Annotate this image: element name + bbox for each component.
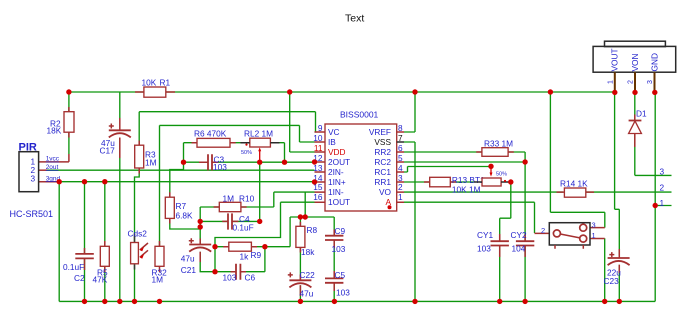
svg-text:47u: 47u xyxy=(181,254,195,264)
capacitor C23 xyxy=(608,257,630,259)
capacitor C22 xyxy=(289,279,311,281)
wire R8 C9 top net xyxy=(290,192,334,235)
svg-text:50%: 50% xyxy=(496,172,507,178)
svg-text:2: 2 xyxy=(398,182,403,192)
svg-text:5: 5 xyxy=(398,153,403,163)
svg-text:4: 4 xyxy=(398,163,403,173)
svg-text:Cds2: Cds2 xyxy=(128,228,148,238)
svg-text:10: 10 xyxy=(313,133,323,143)
junction dots R10 C4 area xyxy=(198,219,203,224)
wire R9 leads xyxy=(215,246,290,248)
svg-text:47K: 47K xyxy=(93,275,108,285)
resistor R5 xyxy=(100,246,109,266)
svg-text:RC2: RC2 xyxy=(374,157,391,167)
svg-text:2out: 2out xyxy=(46,164,59,171)
svg-text:6: 6 xyxy=(398,143,403,153)
svg-text:2: 2 xyxy=(541,226,545,235)
svg-text:CY2: CY2 xyxy=(511,230,528,240)
wire C6 leads xyxy=(215,247,265,272)
svg-text:103: 103 xyxy=(332,244,346,254)
svg-text:50%: 50% xyxy=(241,150,252,156)
svg-text:R8: R8 xyxy=(307,225,318,235)
svg-text:0.1uF: 0.1uF xyxy=(233,222,254,232)
capacitor C3 xyxy=(208,154,212,170)
wire C4 plates leads xyxy=(200,220,260,222)
component red lead segments xyxy=(68,107,70,138)
capacitor C21 xyxy=(189,244,211,246)
resistor R6 xyxy=(197,138,230,147)
svg-text:47u: 47u xyxy=(300,289,314,299)
wire C9 to C5 to rail xyxy=(333,240,335,301)
svg-text:1IN-: 1IN- xyxy=(328,187,344,197)
wire switch pin1 drop xyxy=(604,238,606,301)
svg-text:C2: C2 xyxy=(74,273,85,283)
svg-text:103: 103 xyxy=(477,244,491,254)
wire R10 right to IC pin15 xyxy=(241,192,315,207)
svg-text:2: 2 xyxy=(660,183,665,193)
junction dot net1 xyxy=(653,203,658,208)
svg-text:1k: 1k xyxy=(240,252,250,262)
wire C2 column xyxy=(84,182,86,302)
wire switch pin3 riser xyxy=(604,212,606,227)
wire IC pin6 R33 net xyxy=(404,152,525,162)
wire PIR pin3 bus to IC pin14 xyxy=(39,181,60,183)
IC pin stubs left xyxy=(315,132,326,202)
junction dots bottom rail xyxy=(82,299,87,304)
svg-text:103: 103 xyxy=(223,272,237,282)
wire R7 feed from 2OUT node xyxy=(170,162,184,197)
svg-text:104: 104 xyxy=(512,244,526,254)
resistor R14 xyxy=(564,188,585,197)
svg-text:R33 1M: R33 1M xyxy=(484,139,513,149)
svg-text:RR1: RR1 xyxy=(374,177,391,187)
junction dot pin14 xyxy=(312,179,317,184)
op-amp IC U1 BISS0001 xyxy=(325,124,397,211)
wire R3 net to IC pin9 xyxy=(139,112,315,146)
wire IC pin4 net to BT1 wiper xyxy=(404,167,491,173)
junction dot pin5 CY2 xyxy=(522,159,527,164)
resistor R8 xyxy=(296,226,305,247)
junction dots PIR bus xyxy=(57,179,62,184)
wire IC pin16 net to R9 left xyxy=(215,202,315,247)
svg-text:R14 1K: R14 1K xyxy=(560,178,588,188)
wire R5 column xyxy=(104,182,106,302)
svg-text:VO: VO xyxy=(379,187,392,197)
potentiometer RL2 xyxy=(250,138,271,147)
svg-text:GND: GND xyxy=(650,53,660,71)
wire net2 branch to switch pin3 xyxy=(550,192,604,212)
capacitor C4 xyxy=(228,213,232,229)
junction dot BT1 right xyxy=(508,179,513,184)
wire R3 bottom jog to Qds2 xyxy=(135,168,140,243)
svg-text:C17: C17 xyxy=(100,146,116,156)
svg-text:BISS0001: BISS0001 xyxy=(340,110,379,120)
svg-text:1M: 1M xyxy=(145,158,157,168)
svg-text:103: 103 xyxy=(336,288,350,298)
wire R7 bottom xyxy=(170,218,200,229)
svg-text:VON: VON xyxy=(630,54,640,72)
svg-text:C5: C5 xyxy=(335,270,346,280)
svg-text:11: 11 xyxy=(314,143,323,153)
svg-text:HC-SR501: HC-SR501 xyxy=(10,209,54,219)
svg-text:R10: R10 xyxy=(239,193,255,203)
svg-text:RR2: RR2 xyxy=(374,147,391,157)
wire VCC drop to net2 xyxy=(549,92,551,192)
svg-text:3: 3 xyxy=(31,173,36,183)
wire RL2 right drop xyxy=(280,143,285,163)
svg-text:R1: R1 xyxy=(160,78,171,88)
svg-text:VC: VC xyxy=(328,127,340,137)
svg-text:6.8K: 6.8K xyxy=(176,211,194,221)
svg-text:C22: C22 xyxy=(300,270,316,280)
resistor R3 xyxy=(135,145,144,168)
resistor R33 xyxy=(482,148,508,157)
junction dots top rail xyxy=(66,89,71,94)
capacitor C2 xyxy=(75,254,94,259)
svg-text:0.1uF: 0.1uF xyxy=(63,262,84,272)
svg-text:RL2 1M: RL2 1M xyxy=(244,129,273,139)
svg-text:10K: 10K xyxy=(142,78,157,88)
wire wiper column C4 right xyxy=(259,162,261,221)
svg-text:Text: Text xyxy=(345,12,364,24)
svg-text:103: 103 xyxy=(213,162,227,172)
resistor R7 xyxy=(165,197,174,218)
IC pin1 marker dot xyxy=(388,205,392,209)
wire R2 column to PIR pin1 xyxy=(68,92,70,154)
capacitor CY1 xyxy=(491,241,509,245)
svg-text:2IN-: 2IN- xyxy=(328,167,344,177)
wire net1 stub xyxy=(655,205,671,207)
junction dots R8 node xyxy=(298,214,303,219)
svg-text:1vcc: 1vcc xyxy=(46,156,60,163)
svg-text:1: 1 xyxy=(660,198,665,208)
resistor R9 xyxy=(229,242,252,251)
svg-text:C6: C6 xyxy=(245,272,256,282)
wire R9 left down to C6 xyxy=(214,247,216,272)
junction dots 2OUT row xyxy=(181,160,186,165)
svg-text:1M: 1M xyxy=(152,275,164,285)
svg-text:D1: D1 xyxy=(636,109,647,119)
wire VDD branch to IC pin11 xyxy=(290,92,315,152)
svg-text:VSS: VSS xyxy=(374,137,391,147)
capacitor C17 xyxy=(109,129,131,131)
svg-text:3: 3 xyxy=(647,80,654,84)
capacitor C6 xyxy=(236,264,240,280)
svg-text:R13 BT1: R13 BT1 xyxy=(452,175,485,185)
svg-text:1IN+: 1IN+ xyxy=(328,177,346,187)
wire top VCC rail xyxy=(69,91,615,93)
svg-text:C21: C21 xyxy=(181,265,197,275)
wire net2 VO to R14 to edge xyxy=(404,191,672,193)
svg-text:VDD: VDD xyxy=(328,147,346,157)
capacitor C5 xyxy=(325,278,343,282)
wire VREF VSS column xyxy=(404,92,415,301)
resistor R32 xyxy=(155,246,164,266)
switch SW1 jumper xyxy=(535,228,605,239)
capacitor C9 xyxy=(325,236,343,240)
svg-text:C9: C9 xyxy=(335,226,346,236)
wire PIR pin2 net to IC pin13 xyxy=(39,169,47,171)
wire R10 C4 left column to C21 xyxy=(200,207,219,244)
svg-text:7: 7 xyxy=(398,133,403,143)
junction dot BT1 wiper xyxy=(488,164,493,169)
svg-text:R7: R7 xyxy=(176,201,187,211)
svg-text:16: 16 xyxy=(313,192,323,202)
wire C17 column xyxy=(119,92,121,301)
wire R32 net to IC pin10 xyxy=(160,125,315,246)
svg-text:CY1: CY1 xyxy=(477,230,494,240)
wire 2OUT net with C3 xyxy=(184,161,315,163)
wire R9 right up to R8 node xyxy=(289,217,291,247)
svg-text:2OUT: 2OUT xyxy=(328,157,350,167)
wire GND column right xyxy=(654,92,656,301)
capacitor CY2 xyxy=(516,241,534,245)
wire left edge down xyxy=(58,182,60,302)
svg-text:10K 1M: 10K 1M xyxy=(452,185,481,195)
wire R6 to RL2 xyxy=(230,142,241,144)
svg-text:R9: R9 xyxy=(251,250,262,260)
wire bottom GND rail xyxy=(59,300,655,302)
wire R8 bottom to C22 xyxy=(299,247,301,301)
svg-text:RC1: RC1 xyxy=(374,167,391,177)
wire D1 column net3 xyxy=(635,92,672,175)
wire IC pin5 net to CY2 xyxy=(404,162,525,301)
potentiometer BT1 xyxy=(482,178,501,186)
wire C21 bottom link xyxy=(200,252,215,272)
svg-text:18k: 18k xyxy=(301,247,315,257)
svg-text:1OUT: 1OUT xyxy=(328,197,350,207)
wire R6 left drop xyxy=(184,143,198,163)
svg-text:3: 3 xyxy=(660,167,665,177)
svg-text:1: 1 xyxy=(592,231,596,240)
wire BT1 right to CY1 xyxy=(500,182,511,301)
wire IC pin3 net R13 BT1 xyxy=(404,181,511,183)
svg-text:3: 3 xyxy=(592,220,596,229)
connector J1 VOUT VON GND xyxy=(593,46,676,72)
wire IC pin1 A net to switch pin2 xyxy=(404,202,535,233)
svg-text:2: 2 xyxy=(628,80,635,84)
svg-text:IB: IB xyxy=(328,137,336,147)
svg-text:R6 470K: R6 470K xyxy=(194,129,227,139)
svg-text:8: 8 xyxy=(398,123,403,133)
wire connector pin1 column xyxy=(615,92,620,301)
svg-text:1: 1 xyxy=(398,192,403,202)
svg-text:1: 1 xyxy=(608,80,615,84)
svg-text:C23: C23 xyxy=(604,276,620,286)
svg-text:VOUT: VOUT xyxy=(610,48,620,71)
resistor R13 xyxy=(430,177,451,187)
resistor R1 xyxy=(135,91,175,93)
junction dots R9 C6 xyxy=(212,244,217,249)
svg-text:1M: 1M xyxy=(223,193,235,203)
wire Qds2 bottom xyxy=(134,264,136,302)
svg-text:9: 9 xyxy=(318,123,323,133)
svg-text:18K: 18K xyxy=(47,126,62,136)
resistor R10 xyxy=(219,202,241,211)
resistor R2 xyxy=(64,112,74,133)
svg-text:A: A xyxy=(385,197,391,207)
diode D1 xyxy=(629,120,642,122)
IC pin stubs right xyxy=(397,132,404,202)
photoresistor Qds2 xyxy=(131,243,139,264)
svg-text:VREF: VREF xyxy=(369,127,391,137)
